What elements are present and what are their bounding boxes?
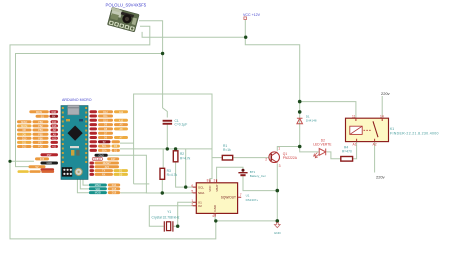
power terminal VCC +12V bbox=[243, 13, 261, 20]
wire GND junction to ground symbol bbox=[216, 220, 277, 222]
svg-text:D12: D12 bbox=[22, 146, 27, 149]
Arduino left pin labels bbox=[17, 110, 58, 173]
svg-text:D16: D16 bbox=[52, 125, 57, 128]
resistor R1 bbox=[222, 144, 232, 160]
svg-text:R=470: R=470 bbox=[342, 149, 352, 153]
svg-text:6: 6 bbox=[191, 184, 193, 188]
svg-text:C=0.1µF: C=0.1µF bbox=[175, 123, 188, 127]
svg-text:PB4: PB4 bbox=[38, 129, 43, 132]
svg-text:GND: GND bbox=[274, 231, 282, 235]
svg-text:U1: U1 bbox=[246, 194, 250, 198]
svg-text:SCL: SCL bbox=[198, 185, 204, 189]
resistor R2 bbox=[173, 151, 190, 162]
svg-text:D16: D16 bbox=[52, 111, 57, 114]
svg-text:R=4.7k: R=4.7k bbox=[167, 173, 178, 177]
module ARDUINO MICRO board bbox=[61, 105, 88, 179]
wire VCC +12V terminal down through node to relay column bbox=[245, 20, 299, 147]
svg-text:D17: D17 bbox=[111, 158, 116, 161]
svg-text:D16: D16 bbox=[112, 192, 117, 195]
node C1 bottom junction bbox=[166, 147, 169, 150]
svg-text:RX: RX bbox=[52, 115, 56, 118]
wire 5V branch to Arduino 5V pin (inner left loop) bbox=[16, 54, 163, 167]
svg-text:PN2222A: PN2222A bbox=[283, 156, 298, 160]
svg-text:1: 1 bbox=[278, 147, 280, 151]
relay K1 FINDER bbox=[346, 114, 439, 146]
svg-text:A11: A11 bbox=[52, 146, 57, 149]
svg-text:5V: 5V bbox=[103, 141, 106, 144]
svg-text:DS1307+: DS1307+ bbox=[246, 198, 259, 202]
svg-text:A10: A10 bbox=[119, 119, 124, 122]
svg-text:TX: TX bbox=[102, 170, 105, 173]
op-amp U1 DS1307 RTC IC bbox=[191, 179, 258, 218]
svg-text:D14: D14 bbox=[112, 184, 117, 187]
svg-text:MISO: MISO bbox=[21, 121, 27, 124]
wire IC GND pin down to junction bbox=[214, 213, 216, 221]
svg-text:RxLED: RxLED bbox=[94, 158, 102, 161]
wire SCL vertical from Arduino bbox=[185, 149, 187, 187]
wire IC VBAT pin to battery BT1 plus bbox=[217, 167, 243, 183]
svg-text:A10: A10 bbox=[52, 137, 57, 140]
svg-text:SCK: SCK bbox=[95, 188, 100, 191]
wire 5V rail with pullups (Arduino pin to corner) bbox=[120, 148, 212, 150]
wire relay contact to 220V top bbox=[381, 96, 383, 118]
wire R1 tap to transistor base path bbox=[212, 157, 269, 159]
svg-text:Battery_Cel: Battery_Cel bbox=[250, 174, 266, 178]
node SCL junction bbox=[184, 185, 187, 188]
Arduino right pin labels bbox=[90, 110, 129, 176]
wire 5V from regulator VOUT to C1 top bbox=[139, 21, 167, 118]
battery BT1 bbox=[238, 169, 265, 178]
wire IC X1 to crystal right plate bbox=[173, 202, 196, 226]
svg-text:220v: 220v bbox=[381, 91, 390, 96]
wire R2 bottom to SCL line bbox=[176, 162, 197, 187]
svg-text:D12: D12 bbox=[103, 111, 108, 114]
svg-text:VCC +12V: VCC +12V bbox=[243, 13, 261, 17]
wire crystal net crossing segment bbox=[134, 183, 150, 185]
node ground junction bbox=[276, 219, 280, 223]
svg-text:220v: 220v bbox=[376, 174, 385, 179]
svg-text:A1: A1 bbox=[353, 142, 357, 146]
wire Arduino D-pin loop around top to R1 and IC VCC bbox=[120, 94, 212, 184]
svg-text:3: 3 bbox=[279, 164, 281, 168]
svg-text:SS: SS bbox=[41, 115, 45, 118]
node IC GND junction bbox=[214, 219, 217, 222]
node regulator 5V branch junction bbox=[161, 52, 164, 55]
wire node A to LED D2 anode bbox=[300, 147, 319, 152]
svg-text:2: 2 bbox=[191, 203, 193, 207]
resistor R4 bbox=[341, 146, 353, 162]
node battery emitter junction bbox=[276, 189, 280, 193]
wire GND stub to Arduino GND pill bbox=[10, 160, 34, 162]
svg-text:D11: D11 bbox=[22, 142, 27, 145]
svg-text:RST: RST bbox=[47, 154, 52, 157]
wire rail drop to R3 top bbox=[162, 149, 164, 168]
capacitor C1 bbox=[163, 119, 188, 127]
ground symbol GND bbox=[274, 223, 282, 235]
svg-text:A11: A11 bbox=[119, 111, 124, 114]
svg-text:MOSI: MOSI bbox=[36, 111, 42, 114]
svg-text:5V: 5V bbox=[36, 166, 39, 169]
svg-text:PB5: PB5 bbox=[38, 133, 43, 136]
svg-text:2: 2 bbox=[265, 158, 267, 162]
svg-text:14: 14 bbox=[380, 114, 384, 118]
svg-text:Q1: Q1 bbox=[283, 152, 288, 156]
LED D2 LED VERTE bbox=[313, 138, 332, 158]
wire battery BT1 minus to emitter rail bbox=[243, 175, 277, 190]
wire LED D2 cathode to R4 bbox=[327, 152, 341, 159]
svg-text:D15: D15 bbox=[112, 188, 117, 191]
wire VIN +12V from regulator to VCC node bbox=[142, 32, 246, 37]
wire SDA from Arduino bottom pill bbox=[120, 192, 146, 194]
wire R4 to relay coil pin bottom bbox=[353, 142, 357, 159]
svg-text:D14: D14 bbox=[52, 121, 57, 124]
svg-text:8: 8 bbox=[207, 179, 209, 183]
svg-text:R=1k: R=1k bbox=[223, 148, 231, 152]
svg-text:PB3: PB3 bbox=[38, 121, 43, 124]
svg-text:MOSI: MOSI bbox=[95, 192, 101, 195]
node VCC +12V junction bbox=[244, 36, 247, 39]
node R2 top junction bbox=[174, 147, 177, 150]
svg-text:PB2: PB2 bbox=[38, 125, 43, 128]
svg-text:SCL: SCL bbox=[102, 145, 107, 148]
svg-text:LED VERTE: LED VERTE bbox=[313, 142, 332, 146]
svg-text:PD6: PD6 bbox=[38, 146, 43, 149]
wire IC X2 to crystal left plate bbox=[149, 206, 196, 226]
svg-text:RESET: RESET bbox=[103, 162, 112, 165]
svg-text:3V3: 3V3 bbox=[105, 166, 110, 169]
svg-text:MOSI: MOSI bbox=[21, 125, 27, 128]
regulator module POLOLU S9V4X5F5 bbox=[107, 7, 139, 32]
svg-text:POLOLU_S9V4X5F5: POLOLU_S9V4X5F5 bbox=[106, 2, 147, 7]
resistor R3 bbox=[160, 168, 177, 179]
svg-text:X2: X2 bbox=[198, 204, 202, 208]
svg-text:4: 4 bbox=[212, 214, 214, 218]
wire relay contact to 220V bottom bbox=[374, 142, 376, 173]
svg-text:R2: R2 bbox=[180, 152, 184, 156]
svg-text:SDA: SDA bbox=[198, 191, 205, 195]
svg-text:PB6: PB6 bbox=[38, 137, 43, 140]
wire GND outer loop: regulator GND pin, left side, bottom rail to IC GND junction bbox=[10, 26, 216, 239]
svg-text:D10: D10 bbox=[103, 119, 108, 122]
svg-text:5: 5 bbox=[191, 190, 193, 194]
svg-text:Crystal 32.768 kHz: Crystal 32.768 kHz bbox=[152, 215, 180, 219]
svg-text:SQW/OUT: SQW/OUT bbox=[221, 196, 236, 200]
svg-text:D11: D11 bbox=[103, 115, 108, 118]
svg-text:R=4.7k: R=4.7k bbox=[180, 157, 191, 161]
node crystal X1 junction bbox=[176, 225, 179, 228]
wire emitter of Q1 down to GND junction bbox=[276, 163, 278, 221]
svg-text:3: 3 bbox=[214, 179, 216, 183]
node GND left pill junction bbox=[8, 160, 11, 163]
wire R3 bottom to SDA line bbox=[161, 179, 163, 193]
node D1 cathode junction bbox=[298, 110, 302, 114]
svg-text:GND: GND bbox=[47, 162, 53, 165]
svg-text:RX: RX bbox=[102, 174, 106, 177]
svg-text:Y1: Y1 bbox=[167, 210, 171, 214]
wire Arduino underside to bottom pills bbox=[77, 179, 88, 192]
svg-text:7: 7 bbox=[240, 193, 242, 197]
svg-text:3V3: 3V3 bbox=[40, 158, 45, 161]
node relay feed junction bbox=[298, 100, 302, 104]
wire VCC node to relay coil pin top bbox=[300, 102, 356, 119]
diode D1 1N4148 bbox=[297, 115, 317, 124]
svg-text:PB7: PB7 bbox=[38, 142, 43, 145]
wire collector of Q1 to node A bbox=[277, 147, 299, 151]
node A collector junction bbox=[298, 145, 302, 149]
wire C1 bottom to rail bbox=[166, 124, 168, 149]
svg-text:GND: GND bbox=[213, 204, 217, 212]
svg-text:D10: D10 bbox=[22, 137, 27, 140]
Arduino bottom pin labels bbox=[89, 184, 120, 195]
transistor Q1 PN2222A bbox=[265, 147, 297, 169]
svg-text:GND: GND bbox=[98, 154, 104, 157]
svg-text:1N4148: 1N4148 bbox=[306, 118, 317, 122]
svg-text:SDA: SDA bbox=[102, 150, 107, 153]
svg-text:ARDUINO MICRO: ARDUINO MICRO bbox=[62, 98, 92, 102]
wire SDA vertical from Arduino pin bbox=[108, 155, 196, 193]
svg-text:MISO: MISO bbox=[95, 184, 101, 187]
svg-text:A2: A2 bbox=[373, 142, 377, 146]
node SDA junction bbox=[161, 191, 164, 194]
svg-text:11: 11 bbox=[352, 114, 356, 118]
svg-text:VBAT: VBAT bbox=[215, 184, 219, 192]
svg-text:FINDER-22.21.8.230.4000: FINDER-22.21.8.230.4000 bbox=[390, 131, 439, 135]
crystal Y1 32.768 kHz bbox=[152, 210, 180, 231]
svg-text:VCC: VCC bbox=[208, 185, 212, 192]
